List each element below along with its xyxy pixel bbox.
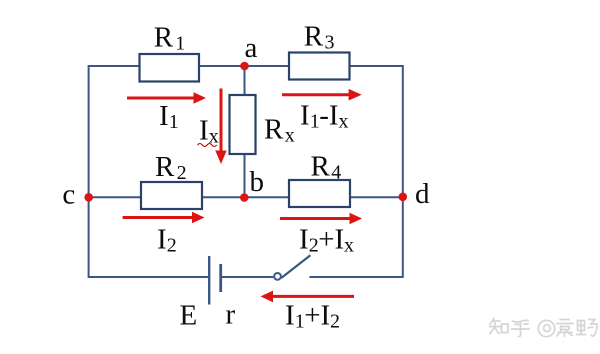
resistor R2: [141, 182, 202, 209]
label Rx: [264, 114, 295, 147]
svg-text:x: x: [339, 110, 349, 132]
label I2+Ix: [299, 224, 354, 257]
spellcheck squiggle under Ix: [198, 144, 217, 147]
watermark zhihu @yuanye (vector strokes): [490, 319, 598, 337]
svg-text:r: r: [226, 299, 236, 331]
svg-text:x: x: [209, 126, 219, 148]
wire battery to switch: [221, 276, 274, 278]
label I1+I2: [285, 299, 340, 332]
label E: [180, 299, 198, 331]
label I1: [159, 100, 179, 133]
wire switch to bottom right corner: [310, 276, 403, 278]
current arrow I2+Ix: [280, 213, 362, 225]
node d: [399, 193, 408, 202]
resistor R1: [140, 54, 200, 82]
svg-text:I: I: [159, 100, 169, 132]
label r: [226, 299, 236, 331]
svg-text:I: I: [157, 224, 167, 256]
svg-text:I: I: [285, 299, 295, 331]
svg-text:x: x: [344, 235, 354, 257]
svg-text:+I: +I: [304, 299, 330, 331]
svg-text:2: 2: [309, 235, 319, 257]
svg-text:1: 1: [175, 32, 185, 54]
svg-text:I: I: [300, 99, 310, 131]
node label b: [250, 166, 265, 198]
svg-text:R: R: [155, 151, 175, 183]
current arrow I1-Ix: [282, 89, 362, 101]
svg-text:d: d: [415, 178, 430, 210]
node c: [84, 193, 93, 202]
current arrow I2: [123, 212, 205, 224]
svg-text:E: E: [180, 299, 198, 331]
battery E long plate: [208, 256, 210, 305]
resistor R3: [289, 53, 350, 80]
battery r short plate: [219, 264, 222, 292]
svg-text:a: a: [245, 32, 258, 64]
label R4: [311, 151, 342, 184]
svg-text:R: R: [154, 21, 174, 53]
current arrow I1: [127, 92, 206, 104]
svg-text:+I: +I: [318, 224, 344, 256]
label R2: [155, 151, 187, 184]
node b: [240, 193, 249, 202]
svg-text:I: I: [199, 115, 209, 147]
node a: [240, 62, 249, 71]
svg-text:x: x: [285, 125, 295, 147]
svg-text:4: 4: [331, 162, 341, 184]
label R1: [154, 21, 186, 54]
node label d: [415, 178, 430, 210]
current arrow Ix (down): [215, 89, 226, 165]
label Ix: [199, 115, 219, 148]
label I1-Ix: [300, 99, 349, 132]
wire bottom left segment: [89, 276, 210, 278]
svg-text:R: R: [264, 114, 284, 146]
svg-text:1: 1: [295, 310, 305, 332]
wire middle row c-b-d: [89, 196, 403, 198]
wire right rail: [402, 65, 404, 278]
svg-text:b: b: [250, 166, 265, 198]
svg-text:R: R: [311, 151, 331, 183]
node label c: [62, 178, 75, 210]
wire bridge a to b: [244, 66, 246, 197]
svg-text:1: 1: [169, 111, 179, 133]
svg-text:c: c: [62, 178, 75, 210]
resistor Rx: [230, 95, 256, 154]
switch lever: [281, 255, 310, 278]
svg-text:-I: -I: [319, 99, 338, 131]
label R3: [304, 21, 335, 54]
node label a: [245, 32, 258, 64]
svg-text:3: 3: [325, 32, 335, 54]
switch pivot circle: [274, 273, 281, 280]
current arrow I1+I2 (left): [261, 291, 355, 303]
svg-text:I: I: [299, 224, 309, 256]
svg-text:2: 2: [177, 162, 187, 184]
label I2: [157, 224, 177, 257]
svg-text:R: R: [304, 21, 324, 53]
wire left rail: [88, 65, 90, 278]
svg-text:2: 2: [167, 235, 177, 257]
svg-text:2: 2: [330, 310, 340, 332]
svg-text:1: 1: [310, 110, 320, 132]
wire top rail c-corner to a to right corner: [89, 65, 403, 67]
resistor R4: [289, 180, 350, 207]
